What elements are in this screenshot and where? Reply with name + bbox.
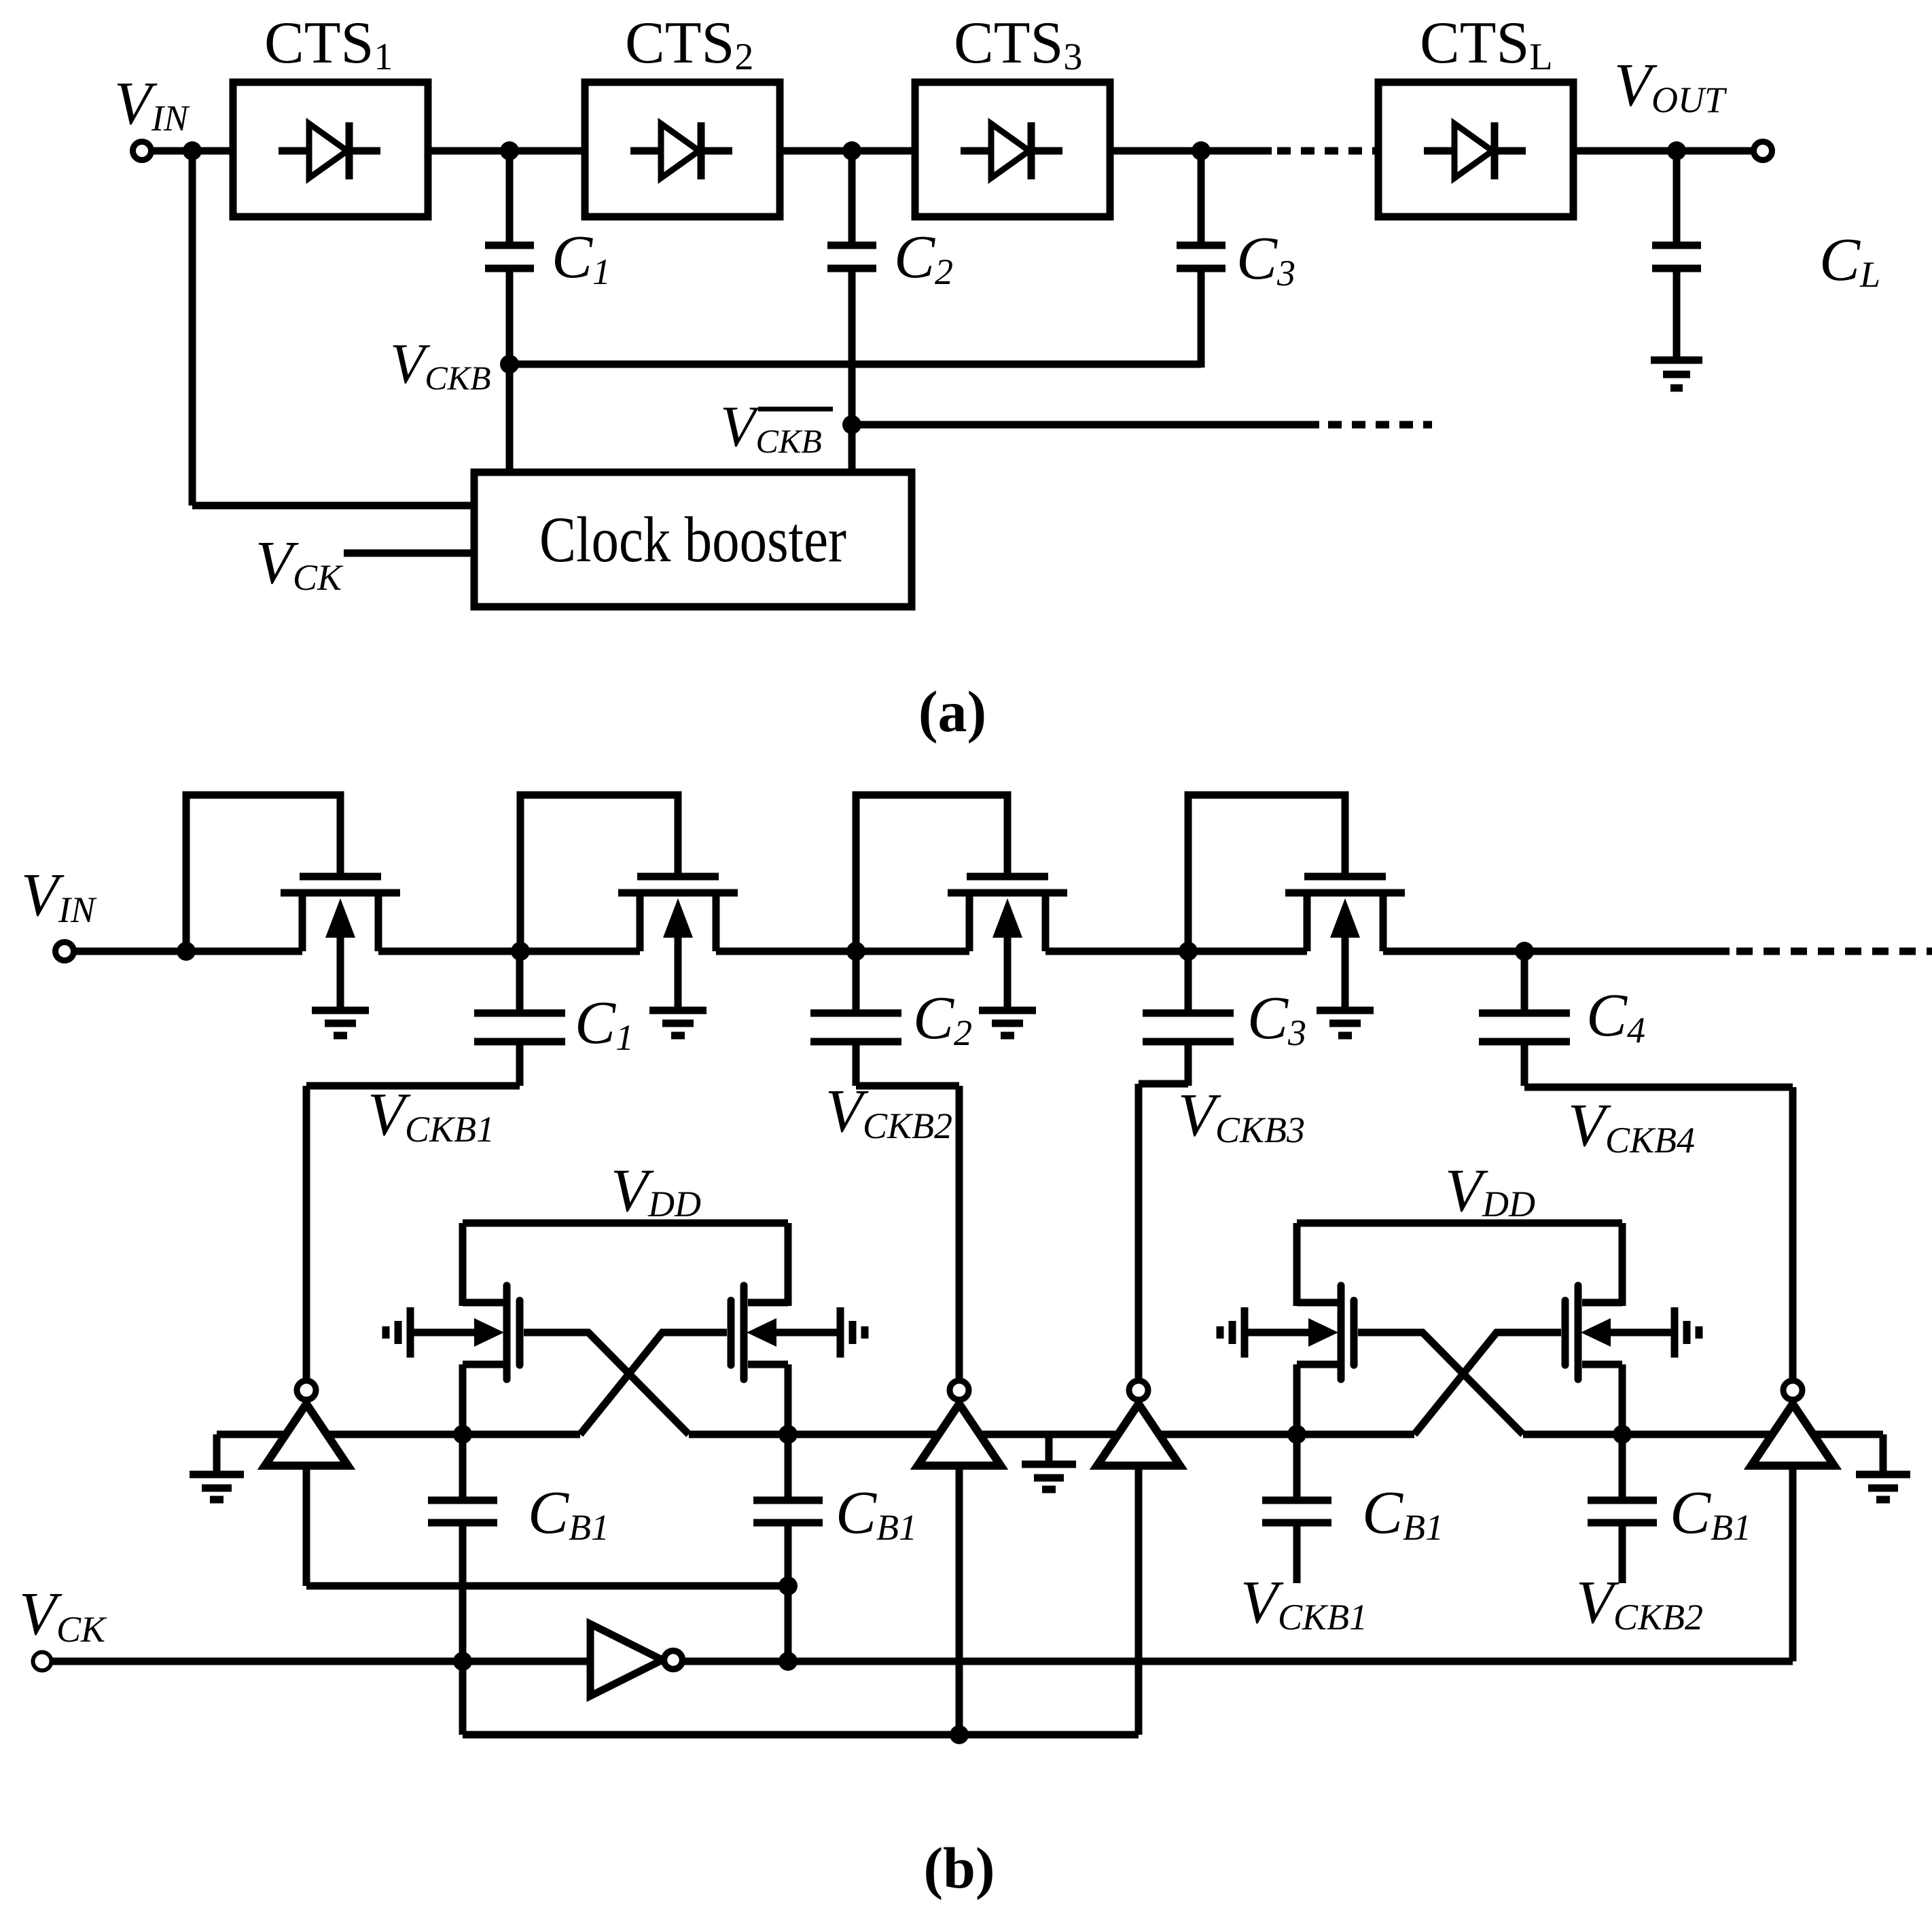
wire P2a source to node xyxy=(1293,1364,1301,1434)
wire VCKB3 to buffer3 output xyxy=(1135,1084,1143,1379)
wire node row segment 1 xyxy=(327,1431,580,1438)
wire buffer3 input xyxy=(1135,1466,1143,1735)
buffer U2 (level-shifting driver) xyxy=(918,1381,1001,1466)
wire rail seg2 xyxy=(378,948,640,955)
wire node row segment 5 xyxy=(1523,1431,1772,1438)
CTS2 box xyxy=(585,82,780,217)
capacitor C1 (a) xyxy=(485,151,534,268)
node n4 (b) xyxy=(1179,942,1198,961)
node VIN junction (a) xyxy=(183,141,202,160)
wire VCKB2 to buffer2 output xyxy=(956,1086,963,1379)
node n5 (b) xyxy=(1515,942,1534,961)
clock booster block (a) xyxy=(474,472,912,607)
wire C1 bottom jog (VCKB1) xyxy=(306,1082,520,1090)
wire cross-coupling gate of P1b xyxy=(580,1332,727,1434)
wire node row to right ground xyxy=(1813,1431,1883,1438)
ground below CL xyxy=(1651,272,1702,388)
CTS3 box xyxy=(915,82,1110,217)
output terminal VOUT xyxy=(1754,142,1772,160)
inverter U5 xyxy=(590,1624,683,1696)
wire VCKBbar bus xyxy=(852,421,1319,429)
transistor P1a (cross-coupled, left) xyxy=(463,1286,520,1379)
wire CB1 bottom stub (latch2 right) xyxy=(1619,1526,1626,1583)
node latch2 left output xyxy=(1287,1425,1306,1444)
diode inside CTS1 xyxy=(279,122,380,179)
wire buffer4 input xyxy=(1789,1466,1797,1661)
node VOUT (a) xyxy=(1667,141,1686,160)
capacitor C3 (a) xyxy=(1177,151,1226,268)
capacitor CB1 (latch 2 right) xyxy=(1588,1434,1657,1523)
node latch1 left output xyxy=(453,1425,472,1444)
capacitor C2 (a) xyxy=(827,151,876,268)
node latch2 right output xyxy=(1613,1425,1632,1444)
node CB1-right / buffer1 input junction xyxy=(779,1576,798,1595)
buffer U4 (level-shifting driver) xyxy=(1751,1381,1834,1466)
transistor M4 (diode-connected NMOS) xyxy=(1188,795,1405,1008)
ground of M3 bulk xyxy=(979,1010,1036,1036)
node CB1-left / VCK junction xyxy=(453,1652,472,1671)
capacitor C3 (b) xyxy=(1143,951,1234,1086)
ground of M1 bulk xyxy=(312,1010,369,1036)
wire rail seg3 xyxy=(716,948,969,955)
svg-text:(b): (b) xyxy=(923,1835,995,1900)
transistor M3 (diode-connected NMOS) xyxy=(856,795,1067,1008)
wire C3 bottom jog (VCKB3) xyxy=(1139,1080,1188,1088)
wire VIN down to booster xyxy=(189,151,196,506)
node VCKBbar xyxy=(842,415,861,434)
wire CTSL to VOUT xyxy=(1573,147,1751,155)
wire buffer2 input xyxy=(956,1466,963,1735)
input terminal VIN (a) xyxy=(133,142,151,160)
wire P1a source to node xyxy=(459,1364,467,1434)
dashed wire VCKBbar continues xyxy=(1328,421,1432,429)
wire VDD to P1b drain xyxy=(785,1223,792,1306)
diode inside CTSL xyxy=(1424,122,1526,179)
wire CB1-left bottom down to VCK xyxy=(459,1526,467,1735)
wire CB1-right bottom to inverter output xyxy=(785,1526,792,1661)
wire C2 bottom jog (VCKB2) xyxy=(856,1082,959,1090)
input terminal VCK xyxy=(33,1652,52,1671)
wire buffer1 input from inverter output xyxy=(306,1582,788,1590)
wire rail seg4 xyxy=(1045,948,1307,955)
wire rail seg5 xyxy=(1383,948,1730,955)
node n2 (b) xyxy=(511,942,530,961)
capacitor CL (a) xyxy=(1652,151,1701,268)
diode inside CTS3 xyxy=(961,122,1062,179)
wire C1 bottom to clock booster xyxy=(506,272,514,472)
wire cross-coupling gate of P1a xyxy=(524,1332,689,1434)
wire VDD rail (latch 1) xyxy=(463,1220,788,1227)
wire CTS3 right xyxy=(1110,147,1272,155)
wire C4 bottom jog (VCKB4) xyxy=(1524,1084,1793,1091)
dashed rail continuation (b) xyxy=(1736,948,1932,955)
overline of VCKBbar label xyxy=(758,407,833,412)
transistor M1 (diode-connected NMOS) xyxy=(186,795,400,1008)
wire VDD rail (latch 2) xyxy=(1297,1220,1622,1227)
node 2 (a) xyxy=(842,141,861,160)
transistor P2a (cross-coupled, left) xyxy=(1297,1286,1354,1379)
wire VCK feed to buffers 2,3 xyxy=(463,1731,1139,1739)
node CB1-right / inverter output junction xyxy=(779,1652,798,1671)
wire inverter output rail xyxy=(683,1658,1793,1665)
wire cross-coupling gate of P2a xyxy=(1358,1332,1523,1434)
wire VCK to inverter xyxy=(52,1658,590,1665)
wire VDD to P2b drain xyxy=(1619,1223,1626,1306)
ground right of buffer4 xyxy=(1856,1434,1910,1500)
node n1 (b) xyxy=(177,942,196,961)
wire VIN into booster left xyxy=(192,502,474,510)
buffer U1 (level-shifting driver) xyxy=(265,1381,348,1466)
wire VCKB1 to buffer1 output xyxy=(303,1086,310,1379)
node buffer2 input junction xyxy=(950,1725,969,1744)
transistor M2 (diode-connected NMOS) xyxy=(520,795,738,1008)
bulk contact arrow of P2a with ground xyxy=(1220,1307,1338,1358)
node n3 (b) xyxy=(846,942,865,961)
capacitor C1 (b) xyxy=(474,951,565,1086)
node 1 (a) xyxy=(500,141,519,160)
diode inside CTS2 xyxy=(630,122,732,179)
svg-text:(a): (a) xyxy=(918,679,986,744)
wire P1b source to node xyxy=(785,1364,792,1434)
buffer U3 (level-shifting driver) xyxy=(1097,1381,1180,1466)
wire VCKB bus xyxy=(509,361,1201,368)
wire buffer1 input xyxy=(303,1466,310,1586)
wire VIN to CTS1 xyxy=(151,147,233,155)
wire CTS1 to CTS2 xyxy=(428,147,585,155)
wire node row segment 4 xyxy=(1159,1431,1414,1438)
svg-text:CTS2: CTS2 xyxy=(625,10,753,78)
capacitor C4 (b) xyxy=(1479,951,1570,1086)
wire C3 bottom to VCKB bus xyxy=(1198,272,1205,368)
transistor P1b (cross-coupled, right) xyxy=(731,1286,788,1379)
wire VCK stub into booster xyxy=(344,550,474,557)
capacitor CB1 (latch 1 right) xyxy=(753,1434,823,1523)
svg-text:Clock booster: Clock booster xyxy=(539,503,846,576)
bulk contact arrow of P1a with ground xyxy=(386,1307,504,1358)
wire cross-coupling gate of P2b xyxy=(1414,1332,1561,1434)
wire CTS2 to CTS3 xyxy=(780,147,915,155)
CTSL box xyxy=(1378,82,1573,217)
transistor P2b (cross-coupled, right) xyxy=(1565,1286,1622,1379)
capacitor CB1 (latch 1 left) xyxy=(428,1434,497,1523)
wire VDD to P1a drain xyxy=(459,1223,467,1306)
dashed wire to CTSL xyxy=(1277,147,1378,155)
bulk contact arrow of P1b with ground xyxy=(747,1307,865,1358)
node latch1 right output xyxy=(779,1425,798,1444)
wire node row segment 2 xyxy=(689,1431,939,1438)
capacitor CB1 (latch 2 left) xyxy=(1262,1434,1331,1523)
wire VIN rail seg1 xyxy=(74,948,302,955)
CTS1 box xyxy=(233,82,428,217)
svg-text:CTS3: CTS3 xyxy=(954,10,1082,78)
wire C2 bottom to clock booster xyxy=(848,272,856,472)
svg-text:CTS1: CTS1 xyxy=(264,10,393,78)
ground left of buffer1 xyxy=(190,1434,244,1500)
ground of M2 bulk xyxy=(649,1010,706,1036)
capacitor C2 (b) xyxy=(810,951,901,1086)
node 3 (a) xyxy=(1192,141,1211,160)
wire VDD to P2a drain xyxy=(1293,1223,1301,1306)
bulk contact arrow of P2b with ground xyxy=(1581,1307,1699,1358)
input terminal VIN (b) xyxy=(56,942,74,961)
wire node row to buffer1 xyxy=(217,1431,286,1438)
wire CB1 bottom stub (latch2 left) xyxy=(1293,1526,1301,1583)
wire node row segment 3 xyxy=(980,1431,1118,1438)
wire VCKB4 to buffer4 output xyxy=(1789,1087,1797,1379)
ground between buffer2 and buffer3 xyxy=(1022,1434,1076,1489)
node VCKB xyxy=(500,355,519,374)
wire P2b source to node xyxy=(1619,1364,1626,1434)
ground of M4 bulk xyxy=(1317,1010,1374,1036)
